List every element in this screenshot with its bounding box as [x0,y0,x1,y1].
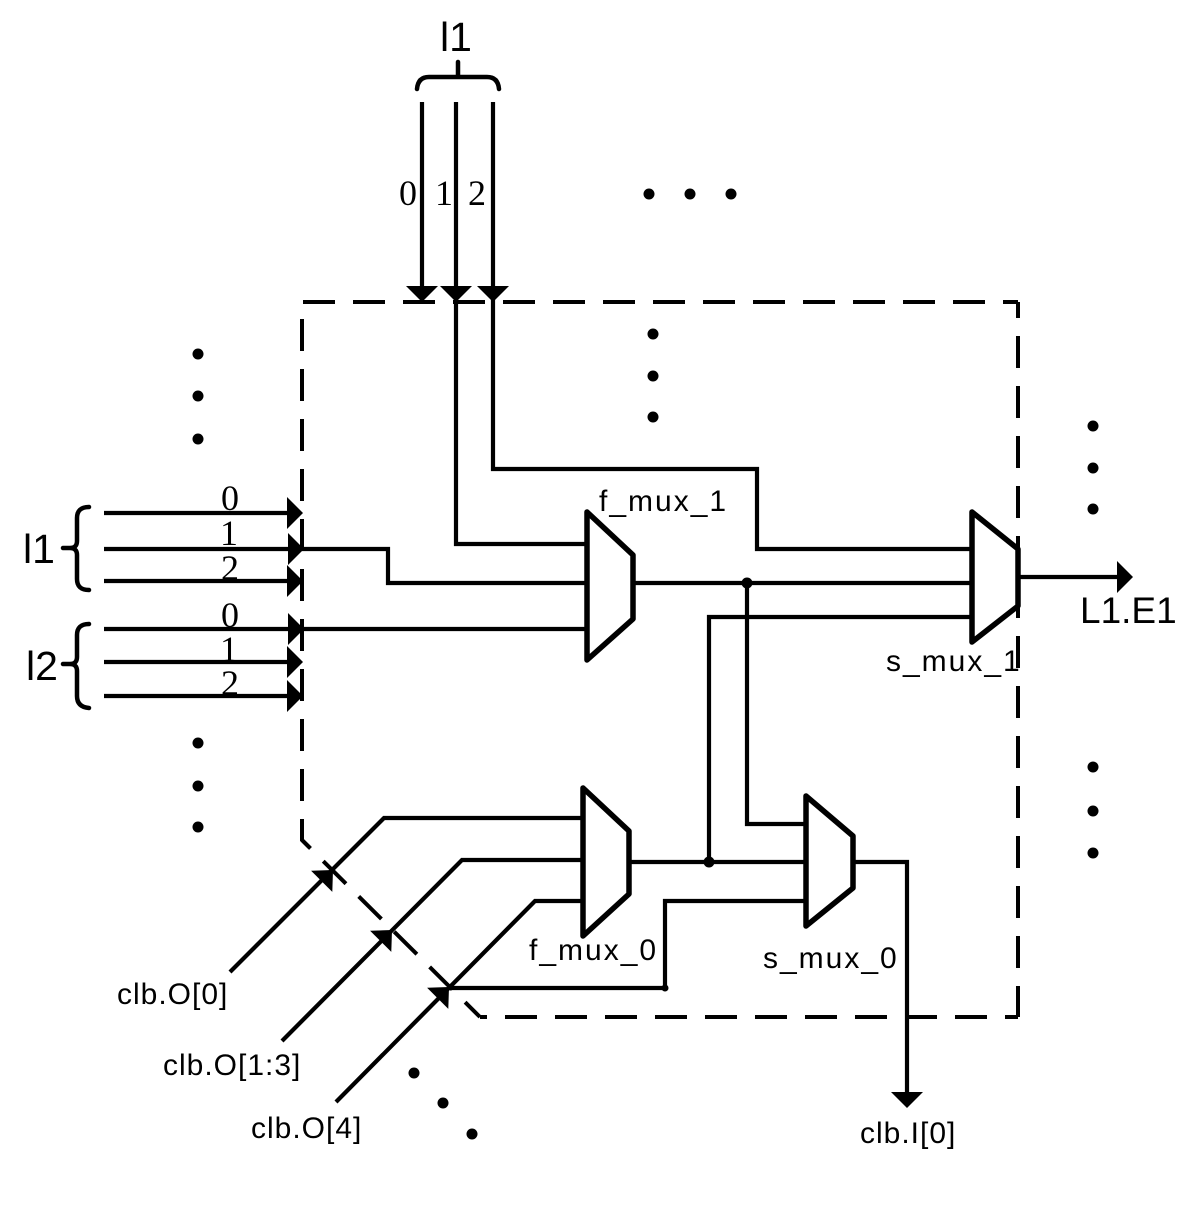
svg-text:l1: l1 [23,526,55,572]
junction node on f_mux_1 output [742,578,753,589]
wire clb.O[4] (diagonal into f_mux_0 input 2) [336,901,583,1102]
mux f_mux_1 [587,512,633,660]
junction node on f_mux_0 output [704,857,715,868]
wire I1 bit2 (top vertical, to s_mux_1 input 0) [493,102,972,549]
wire clb.O[0] (diagonal into f_mux_0 input 0) [230,818,583,972]
wire I2.2 (left, ends at boundary) [104,694,290,698]
ellipsis dots (top, more input buses) [644,189,737,200]
dashed boundary box (clb routing block) [302,302,1018,1017]
wire s_mux_1 output L1.E1 [1018,575,1118,579]
brace for top I1 bus [417,62,499,89]
svg-text:0: 0 [399,173,417,213]
ellipsis dots (diagonal, more clb outputs) [409,1068,478,1140]
svg-text:clb.O[1:3]: clb.O[1:3] [163,1049,301,1082]
brace for left I1 bus [63,507,89,590]
ellipsis dots (left upper) [193,349,204,445]
svg-text:1: 1 [435,173,453,213]
mux s_mux_1 [972,512,1018,642]
ellipsis dots (inside box top) [648,329,659,423]
svg-text:l1: l1 [440,14,472,60]
svg-text:clb.O[4]: clb.O[4] [251,1112,362,1145]
wire I1.0 (left, ends at boundary) [104,511,290,515]
svg-text:f_mux_1: f_mux_1 [599,485,728,518]
wire junction down to s_mux_0 input 0 [747,583,806,824]
svg-text:s_mux_0: s_mux_0 [763,942,899,975]
wire f_mux_1 output to s_mux_1 input 1 [633,581,972,585]
svg-text:clb.O[0]: clb.O[0] [117,978,228,1011]
svg-text:s_mux_1: s_mux_1 [886,645,1022,678]
svg-text:2: 2 [468,173,486,213]
svg-text:L1.E1: L1.E1 [1080,590,1177,631]
svg-text:l2: l2 [26,643,58,689]
mux f_mux_0 [583,788,629,936]
svg-text:clb.I[0]: clb.I[0] [860,1117,956,1150]
wire f_mux_0 output to s_mux_0 input 1 [629,860,806,864]
mux s_mux_0 [806,796,853,926]
wire clb.O[1:3] (diagonal into f_mux_0 input 1) [282,860,583,1041]
brace for left I2 bus [63,624,89,708]
wire clb.O[4] branch to s_mux_0 input 2 [449,901,806,988]
wire I1.2 (left, ends at boundary) [104,579,290,583]
svg-text:f_mux_0: f_mux_0 [529,934,658,967]
ellipsis dots (right upper) [1088,421,1099,515]
wire f_mux_0 output junction up to s_mux_1 input 2 [709,617,972,862]
junction node at bend [662,985,669,992]
wire I2.1 (left, ends at boundary) [104,660,290,664]
wire I1.1 (left, to f_mux_1 input 1) [104,549,587,583]
wire I1 bit0 (top vertical, ends at boundary) [420,102,424,288]
wire I2.0 (left, to f_mux_1 input 2) [104,627,587,631]
wire I1 bit1 (top vertical, to f_mux_1 input 0) [456,102,587,544]
ellipsis dots (left lower) [193,738,204,833]
wire s_mux_0 output to clb.I[0] [853,862,907,1092]
ellipsis dots (right lower) [1088,762,1099,859]
